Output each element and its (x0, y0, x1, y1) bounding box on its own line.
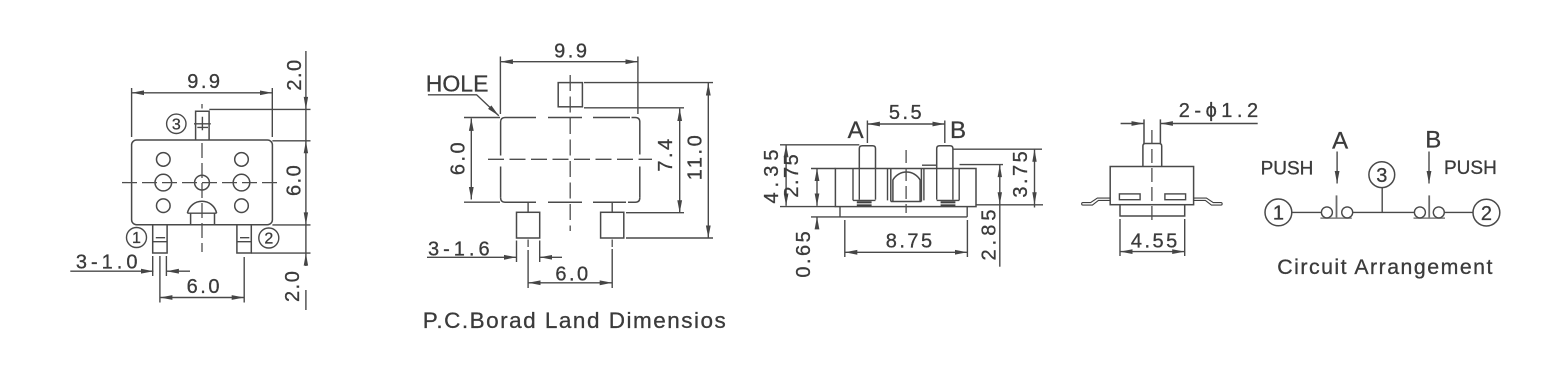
svg-text:6.0: 6.0 (284, 164, 306, 196)
svg-text:B: B (1425, 127, 1441, 154)
svg-text:0.65: 0.65 (793, 229, 815, 278)
svg-text:6.0: 6.0 (555, 264, 590, 286)
svg-text:A: A (1332, 128, 1348, 155)
svg-text:8.75: 8.75 (886, 230, 935, 252)
svg-text:11.0: 11.0 (685, 133, 707, 180)
svg-text:Circuit Arrangement: Circuit Arrangement (1277, 255, 1494, 279)
svg-text:5.5: 5.5 (889, 102, 924, 124)
svg-text:2-ϕ1.2: 2-ϕ1.2 (1179, 100, 1263, 122)
svg-text:2: 2 (264, 231, 273, 248)
svg-text:2.0: 2.0 (282, 270, 304, 302)
svg-text:6.0: 6.0 (448, 140, 470, 175)
svg-text:6.0: 6.0 (187, 276, 222, 298)
svg-text:2.0: 2.0 (284, 58, 306, 90)
svg-text:B: B (950, 117, 966, 144)
svg-text:2.75: 2.75 (781, 153, 803, 198)
svg-text:9.9: 9.9 (187, 71, 222, 93)
svg-text:4.35: 4.35 (761, 145, 783, 204)
svg-text:PUSH: PUSH (1444, 158, 1497, 179)
svg-text:2.85: 2.85 (979, 206, 1001, 261)
svg-text:3: 3 (172, 117, 181, 134)
svg-text:3.75: 3.75 (1010, 149, 1032, 198)
svg-text:4.55: 4.55 (1131, 231, 1180, 253)
svg-text:2: 2 (1481, 203, 1492, 225)
svg-text:3-1.6: 3-1.6 (428, 239, 494, 261)
svg-text:9.9: 9.9 (554, 40, 589, 62)
svg-text:1: 1 (1273, 203, 1284, 225)
svg-text:3: 3 (1376, 165, 1387, 187)
svg-text:7.4: 7.4 (655, 136, 677, 171)
svg-text:A: A (848, 117, 864, 144)
svg-text:P.C.Borad Land Dimensios: P.C.Borad Land Dimensios (423, 308, 727, 333)
svg-text:HOLE: HOLE (426, 71, 489, 97)
svg-text:3-1.0: 3-1.0 (76, 252, 142, 274)
svg-text:PUSH: PUSH (1261, 158, 1314, 179)
svg-text:1: 1 (132, 230, 141, 247)
